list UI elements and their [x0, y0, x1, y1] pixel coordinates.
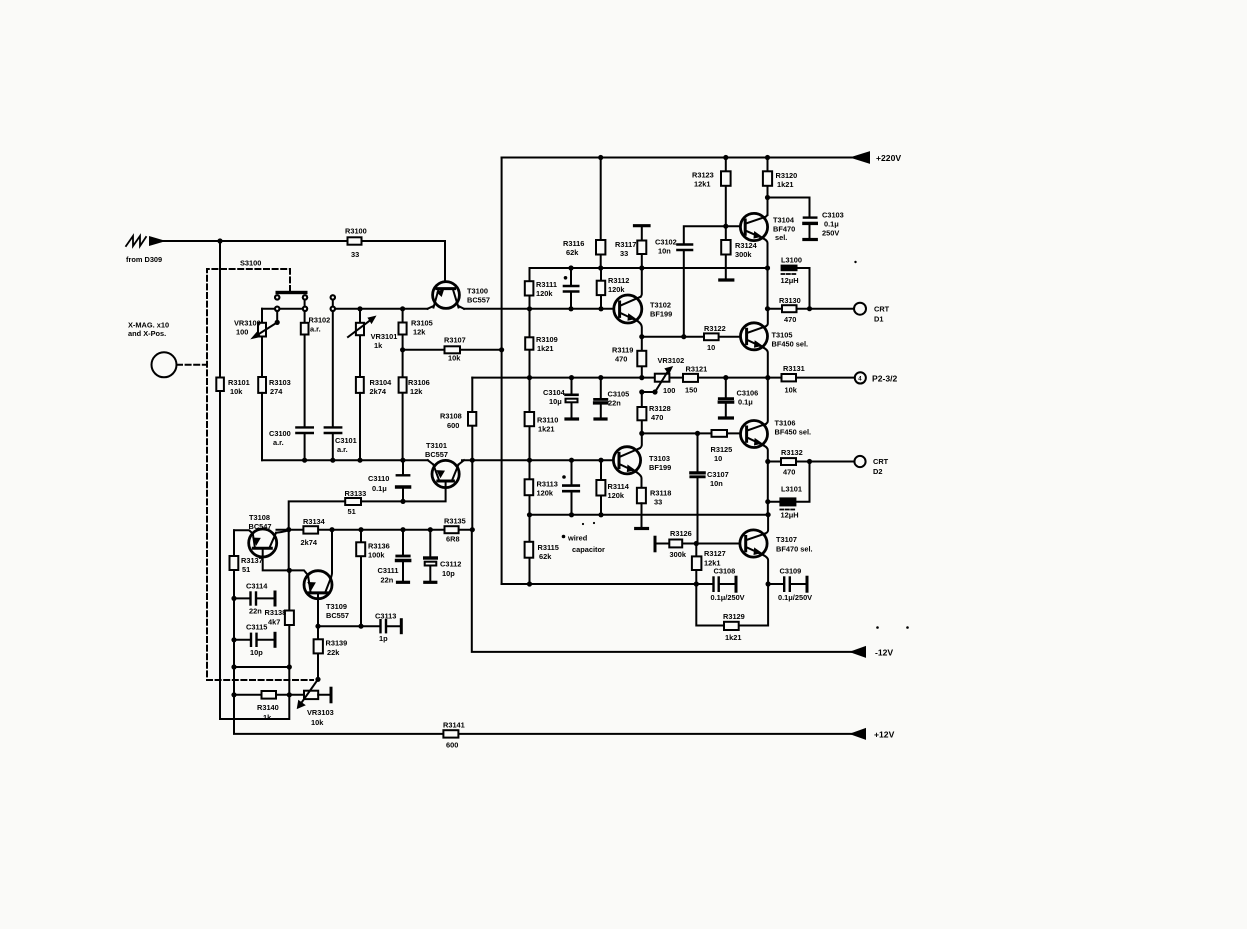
- resistor R3112: [600, 268, 602, 309]
- svg-text:C3107: C3107: [707, 470, 729, 479]
- wire T3105 base line y=337: [642, 336, 741, 338]
- capacitor C3109: [768, 583, 805, 585]
- resistor R3123: [725, 158, 727, 227]
- svg-text:T3109: T3109: [326, 602, 347, 611]
- resistor R3131: [782, 374, 797, 381]
- node input junction x=220: [217, 238, 222, 243]
- svg-text:C3105: C3105: [608, 390, 630, 399]
- svg-text:BF450 sel.: BF450 sel.: [775, 428, 812, 437]
- resistor R3121: [683, 374, 698, 382]
- svg-text:R3128: R3128: [649, 404, 671, 413]
- svg-text:51: 51: [242, 565, 250, 574]
- svg-text:C3112: C3112: [440, 560, 461, 569]
- svg-text:BF199: BF199: [649, 463, 671, 472]
- wire T3105 collector bend: [766, 309, 768, 327]
- wire attenuator bottom rail y=460: [262, 459, 428, 461]
- resistor R3107: [445, 346, 461, 353]
- svg-text:0.1μ: 0.1μ: [738, 398, 753, 407]
- capacitor C3105: [600, 378, 602, 418]
- svg-text:1k21: 1k21: [725, 633, 741, 642]
- resistor R3125: [712, 430, 728, 437]
- resistor R3140: [262, 691, 277, 699]
- resistor R3111: [525, 281, 534, 295]
- transistor T3109: [304, 571, 332, 599]
- resistor R3137: [233, 530, 235, 598]
- wire T3103 emitter down to R3118: [637, 472, 642, 488]
- capacitor C3101: [332, 300, 334, 461]
- wire T3101 collector to line: [459, 460, 465, 464]
- svg-text:100k: 100k: [368, 551, 385, 560]
- wire bus x=502 from +220V rail down: [501, 158, 503, 585]
- svg-text:T3103: T3103: [649, 454, 670, 463]
- svg-text:22n: 22n: [608, 399, 621, 408]
- resistor R3126: [669, 540, 682, 548]
- wire VR3102 wiper to R3128: [642, 391, 655, 393]
- potentiometer VR3102: [655, 374, 670, 382]
- wire input column x=220: [220, 241, 289, 719]
- svg-text:2k74: 2k74: [370, 387, 387, 396]
- terminal CRT D1: [854, 303, 866, 315]
- svg-text:62k: 62k: [566, 248, 579, 257]
- svg-text:R3138: R3138: [265, 608, 287, 617]
- svg-text:BF450 sel.: BF450 sel.: [772, 340, 809, 349]
- svg-text:R3106: R3106: [408, 378, 430, 387]
- capacitor C3107: [697, 433, 699, 543]
- svg-text:R3118: R3118: [650, 489, 671, 498]
- transistor T3102: [614, 295, 642, 323]
- wire T3101 emitter to rail: [428, 460, 434, 464]
- svg-text:C3108: C3108: [714, 567, 736, 576]
- svg-text:a.r.: a.r.: [337, 445, 348, 454]
- switch contact circles: [275, 295, 279, 299]
- resistor R3114: [600, 460, 602, 515]
- wire feedback line y=268: [530, 267, 768, 269]
- svg-text:10k: 10k: [230, 387, 243, 396]
- svg-text:22n: 22n: [249, 607, 262, 616]
- wire bias line y=695: [234, 694, 330, 696]
- wire T3101 base stem: [403, 481, 446, 501]
- svg-text:VR3102: VR3102: [658, 356, 685, 365]
- resistor R3116: [600, 158, 602, 269]
- svg-text:2k74: 2k74: [301, 538, 318, 547]
- svg-text:300k: 300k: [670, 550, 687, 559]
- svg-text:12k: 12k: [410, 387, 423, 396]
- switch S3100 bar: [276, 291, 308, 294]
- svg-text:C3100: C3100: [269, 429, 291, 438]
- transistor T3100: [433, 282, 460, 309]
- wire bus x=529 column: [529, 268, 531, 584]
- svg-text:62k: 62k: [539, 552, 552, 561]
- svg-text:12μH: 12μH: [781, 511, 799, 520]
- switch contact circles top layer: [275, 295, 279, 299]
- terminal CRT D2: [854, 456, 865, 467]
- svg-text:R3124: R3124: [735, 241, 758, 250]
- svg-text:10p: 10p: [442, 569, 455, 578]
- svg-text:274: 274: [270, 387, 283, 396]
- wire T3103 base line y=460: [462, 459, 613, 461]
- svg-text:D1: D1: [874, 315, 883, 324]
- svg-text:P2-3/2: P2-3/2: [872, 374, 898, 384]
- svg-text:R3129: R3129: [723, 612, 745, 621]
- svg-text:from D309: from D309: [126, 255, 162, 264]
- resistor R3138: [288, 570, 290, 667]
- wire T3108 diode link x=289: [288, 530, 290, 571]
- svg-text:1k: 1k: [374, 341, 383, 350]
- svg-text:C3111: C3111: [378, 566, 399, 575]
- wire input line y=241: [162, 240, 361, 242]
- wire supply line y=584: [502, 583, 731, 585]
- svg-text:10: 10: [707, 343, 715, 352]
- svg-text:R3121: R3121: [686, 365, 708, 374]
- svg-text:T3105: T3105: [772, 331, 793, 340]
- svg-text:+12V: +12V: [874, 730, 895, 740]
- svg-text:VR3101: VR3101: [371, 332, 398, 341]
- svg-text:0.1μ/250V: 0.1μ/250V: [778, 593, 812, 602]
- capacitor wired (lower) with star: [571, 460, 573, 515]
- svg-text:R3112: R3112: [608, 276, 629, 285]
- wire T3106 collector up: [766, 378, 768, 424]
- svg-text:R3132: R3132: [781, 448, 803, 457]
- resistor R3136: [360, 530, 362, 627]
- svg-text:12k1: 12k1: [694, 180, 710, 189]
- svg-text:33: 33: [351, 250, 359, 259]
- svg-text:R3123: R3123: [692, 171, 714, 180]
- svg-text:C3115: C3115: [246, 623, 267, 632]
- wire T3103 collector up to y=433: [640, 433, 642, 448]
- wire T3102 emitter down to y=337: [638, 321, 642, 337]
- svg-text:VR3103: VR3103: [307, 708, 334, 717]
- wire T3105 emitter down: [764, 348, 768, 378]
- svg-text:R3140: R3140: [257, 703, 279, 712]
- svg-text:T3101: T3101: [426, 441, 447, 450]
- resistor R3110: [525, 412, 535, 426]
- svg-text:C3113: C3113: [375, 612, 396, 621]
- capacitor C3106: [725, 378, 727, 417]
- svg-text:R3116: R3116: [563, 239, 584, 248]
- wire T3109 collector up to y=530: [331, 530, 332, 578]
- wire feedback line y=529.7: [234, 530, 472, 534]
- transistor T3108: [249, 529, 277, 557]
- svg-text:120k: 120k: [536, 289, 553, 298]
- svg-text:CRT: CRT: [874, 305, 890, 314]
- svg-text:R3134: R3134: [303, 517, 326, 526]
- svg-text:R3111: R3111: [536, 280, 557, 289]
- svg-text:-12V: -12V: [875, 648, 893, 658]
- transistor T3106: [741, 421, 768, 448]
- resistor R3135: [445, 526, 459, 533]
- svg-text:R3105: R3105: [411, 319, 433, 328]
- resistor R3101: [216, 378, 224, 392]
- svg-text:C3104: C3104: [543, 388, 566, 397]
- resistor R3104: [356, 377, 364, 393]
- svg-text:BC547: BC547: [249, 522, 272, 531]
- terminal arrow -12V: [852, 647, 865, 656]
- node VR3100 wiper junction: [275, 320, 280, 325]
- resistor R3106: [402, 350, 404, 460]
- svg-text:T3108: T3108: [249, 513, 270, 522]
- svg-text:10p: 10p: [250, 648, 263, 657]
- svg-text:BC557: BC557: [425, 450, 448, 459]
- svg-text:1k21: 1k21: [777, 180, 793, 189]
- wire T3107 collector bend: [765, 515, 768, 534]
- svg-text:R3113: R3113: [537, 480, 558, 489]
- capacitor C3112: [429, 530, 431, 581]
- svg-text:R3133: R3133: [345, 489, 367, 498]
- wire link y=667: [234, 640, 289, 667]
- svg-text:6R8: 6R8: [446, 535, 460, 544]
- svg-text:R3127: R3127: [704, 549, 726, 558]
- svg-text:0.1μ: 0.1μ: [372, 484, 387, 493]
- capacitor C3113: [318, 625, 400, 627]
- svg-text:R3103: R3103: [269, 378, 291, 387]
- svg-text:1k21: 1k21: [537, 344, 553, 353]
- wire VR3100 column: [261, 309, 263, 377]
- svg-text:BC557: BC557: [467, 296, 490, 305]
- capacitor C3104: [571, 378, 573, 418]
- svg-text:4k7: 4k7: [268, 618, 280, 627]
- resistor R3115: [525, 542, 534, 558]
- svg-text:1p: 1p: [379, 634, 388, 643]
- svg-text:T3106: T3106: [775, 419, 796, 428]
- ground bar below R3124: [720, 278, 733, 281]
- svg-text:C3101: C3101: [335, 436, 357, 445]
- dashed coupling from knob: [177, 364, 207, 366]
- resistor R3103: [258, 377, 266, 393]
- scan specks: [854, 261, 856, 263]
- resistor R3124: [725, 226, 727, 279]
- svg-text:1k: 1k: [263, 713, 272, 722]
- resistor R3108: [471, 378, 473, 461]
- svg-text:100: 100: [236, 328, 248, 337]
- sawtooth input symbol: [126, 236, 146, 246]
- wire T3104 collector node: [767, 198, 769, 216]
- dashed coupling frame S3100 / VR3103: [207, 269, 313, 680]
- wire switch line y=309 left segment: [262, 308, 303, 310]
- svg-text:R3117: R3117: [615, 240, 636, 249]
- wire tail line y=515: [530, 514, 769, 516]
- svg-text:R3137: R3137: [241, 556, 263, 565]
- wire -12V rail: [472, 530, 852, 652]
- svg-text:L3100: L3100: [781, 256, 802, 265]
- resistor R3122: [704, 333, 719, 340]
- transistor T3103: [613, 447, 640, 474]
- wire T3104-T3105 node down: [767, 268, 769, 309]
- resistor R3139: [317, 626, 319, 679]
- resistor R3120: [767, 158, 769, 198]
- terminal P2-3/2: [855, 372, 866, 383]
- svg-text:R3107: R3107: [444, 336, 466, 345]
- svg-text:R3135: R3135: [444, 517, 466, 526]
- svg-text:600: 600: [446, 741, 458, 750]
- svg-text:L3101: L3101: [781, 485, 802, 494]
- wire T3104 base line y=226 with C3102: [684, 226, 741, 337]
- svg-text:D2: D2: [873, 467, 882, 476]
- svg-text:470: 470: [784, 315, 796, 324]
- svg-text:R3125: R3125: [711, 445, 733, 454]
- svg-text:470: 470: [783, 468, 795, 477]
- resistor R3133: [289, 501, 403, 529]
- svg-text:R3131: R3131: [783, 364, 805, 373]
- potentiometer VR3103: [315, 677, 320, 682]
- svg-text:R3122: R3122: [704, 324, 726, 333]
- terminal bar right of VR3103: [330, 688, 333, 702]
- svg-text:10k: 10k: [448, 354, 461, 363]
- wire T3108 base stem: [263, 548, 308, 575]
- resistor R3117: [641, 226, 643, 268]
- resistor R3102: [304, 300, 306, 427]
- wire R3104 to rail: [359, 393, 361, 460]
- wire T3104 emitter down: [764, 239, 768, 269]
- svg-text:12k: 12k: [413, 328, 426, 337]
- svg-text:10n: 10n: [710, 479, 723, 488]
- svg-text:C3109: C3109: [780, 567, 802, 576]
- svg-text:T3107: T3107: [776, 535, 797, 544]
- terminal bar below R3118: [641, 503, 643, 528]
- wire L3100 right branch: [798, 268, 810, 309]
- svg-text:C3103: C3103: [822, 211, 844, 220]
- svg-text:T3102: T3102: [650, 301, 671, 310]
- wire T3106 base line y=433: [642, 432, 741, 434]
- svg-text:100: 100: [663, 386, 675, 395]
- wire T3107 collector node: [766, 512, 771, 517]
- resistor R3118: [637, 488, 646, 504]
- svg-text:R3104: R3104: [370, 378, 393, 387]
- wire R3107 line y=350: [403, 349, 502, 351]
- resistor R3130: [768, 308, 855, 310]
- svg-text:0.1μ: 0.1μ: [824, 220, 839, 229]
- svg-text:R3109: R3109: [536, 335, 558, 344]
- svg-text:C3102: C3102: [655, 238, 677, 247]
- svg-text:1k21: 1k21: [538, 425, 554, 434]
- wire T3102 collector up to y=268: [641, 268, 642, 297]
- capacitor C3103: [768, 198, 810, 239]
- resistor R3113: [525, 479, 534, 495]
- svg-text:R3130: R3130: [779, 296, 801, 305]
- X-MAG control knob: [152, 352, 177, 377]
- svg-text:470: 470: [651, 413, 663, 422]
- svg-text:22k: 22k: [327, 648, 340, 657]
- resistor R3105: [402, 309, 404, 350]
- transistor T3105: [741, 323, 768, 350]
- svg-text:22n: 22n: [381, 576, 394, 585]
- svg-text:33: 33: [654, 498, 662, 507]
- wire +220V rail: [502, 157, 853, 159]
- svg-text:R3102: R3102: [309, 316, 331, 325]
- svg-text:T3100: T3100: [467, 287, 488, 296]
- svg-text:BF470 sel.: BF470 sel.: [776, 545, 813, 554]
- capacitor C3100: [296, 426, 312, 428]
- capacitor C3108: [694, 581, 699, 586]
- svg-text:BC557: BC557: [326, 611, 349, 620]
- svg-text:C3110: C3110: [368, 474, 389, 483]
- inductor L3100: [781, 265, 798, 272]
- svg-text:R3101: R3101: [228, 378, 250, 387]
- svg-text:R3120: R3120: [776, 171, 798, 180]
- svg-text:C3114: C3114: [246, 582, 268, 591]
- capacitor wired (upper) with star: [570, 268, 572, 309]
- svg-text:R3115: R3115: [538, 543, 559, 552]
- wire T3107 base line y=543.5: [655, 543, 740, 545]
- transistor T3107: [740, 530, 767, 557]
- resistor R3119: [641, 337, 643, 378]
- transistor T3104: [740, 213, 767, 240]
- terminal bar left of R3126: [654, 537, 657, 551]
- capacitor C3111: [402, 530, 404, 581]
- input arrow: [150, 237, 163, 244]
- wire T3106 emitter down: [764, 446, 768, 462]
- svg-text:R3110: R3110: [537, 416, 558, 425]
- wire -12V riser x=472: [471, 460, 473, 530]
- svg-text:R3139: R3139: [326, 639, 348, 648]
- svg-text:10k: 10k: [311, 718, 324, 727]
- terminal bar above R3117: [635, 224, 650, 227]
- wire T3107 emitter down: [763, 555, 768, 584]
- svg-text:R3114: R3114: [608, 482, 630, 491]
- potentiometer VR3101: [359, 309, 361, 377]
- svg-text:capacitor: capacitor: [572, 545, 605, 554]
- svg-text:470: 470: [615, 355, 627, 364]
- svg-text:+220V: +220V: [876, 153, 901, 163]
- wire +12V rail: [234, 695, 852, 734]
- svg-text:51: 51: [348, 507, 356, 516]
- svg-text:120k: 120k: [608, 491, 625, 500]
- svg-text:R3136: R3136: [368, 542, 390, 551]
- svg-text:C3106: C3106: [737, 389, 759, 398]
- svg-text:CRT: CRT: [873, 457, 889, 466]
- svg-text:120k: 120k: [537, 489, 554, 498]
- svg-text:S3100: S3100: [240, 259, 261, 268]
- wire switch line y=309 right segment to T3100 emitter: [335, 308, 428, 310]
- svg-text:150: 150: [685, 386, 697, 395]
- potentiometer VR3100: [258, 323, 266, 337]
- svg-text:0.1μ/250V: 0.1μ/250V: [711, 593, 745, 602]
- capacitor C3102: [678, 243, 693, 246]
- capacitor C3115: [233, 598, 235, 639]
- svg-text:R3141: R3141: [443, 721, 465, 730]
- svg-text:BF199: BF199: [650, 310, 672, 319]
- transistor T3101: [432, 460, 459, 487]
- wire R3103 to bottom rail: [261, 393, 263, 460]
- resistor R3132: [768, 461, 855, 463]
- resistor R3109: [525, 337, 533, 349]
- inductor L3101: [767, 462, 769, 515]
- svg-text:a.r.: a.r.: [310, 325, 321, 334]
- svg-text:and X-Pos.: and X-Pos.: [128, 329, 166, 338]
- svg-text:sel.: sel.: [775, 233, 787, 242]
- svg-text:120k: 120k: [608, 285, 625, 294]
- svg-text:a.r.: a.r.: [273, 438, 284, 447]
- resistor R3128: [641, 392, 643, 433]
- svg-text:VR3100: VR3100: [234, 319, 261, 328]
- svg-text:wired: wired: [567, 534, 588, 543]
- svg-text:R3108: R3108: [440, 412, 462, 421]
- note wired capacitor: [562, 535, 566, 539]
- wire R3100 to T3100 base: [362, 241, 446, 282]
- wire main line y=377.7: [472, 377, 854, 379]
- svg-text:300k: 300k: [735, 250, 752, 259]
- svg-text:12μH: 12μH: [781, 276, 799, 285]
- wire T3104 collector bend: [766, 198, 768, 217]
- svg-text:T3104: T3104: [773, 216, 795, 225]
- svg-text:600: 600: [447, 421, 459, 430]
- svg-text:33: 33: [620, 249, 628, 258]
- wire T3100 collector line to x=529: [464, 308, 614, 310]
- svg-text:250V: 250V: [822, 229, 839, 238]
- resistor R3129 loop: [696, 584, 768, 626]
- resistor R3134: [303, 526, 318, 533]
- svg-text:10: 10: [714, 454, 722, 463]
- wire T3109 base stem down: [317, 593, 319, 626]
